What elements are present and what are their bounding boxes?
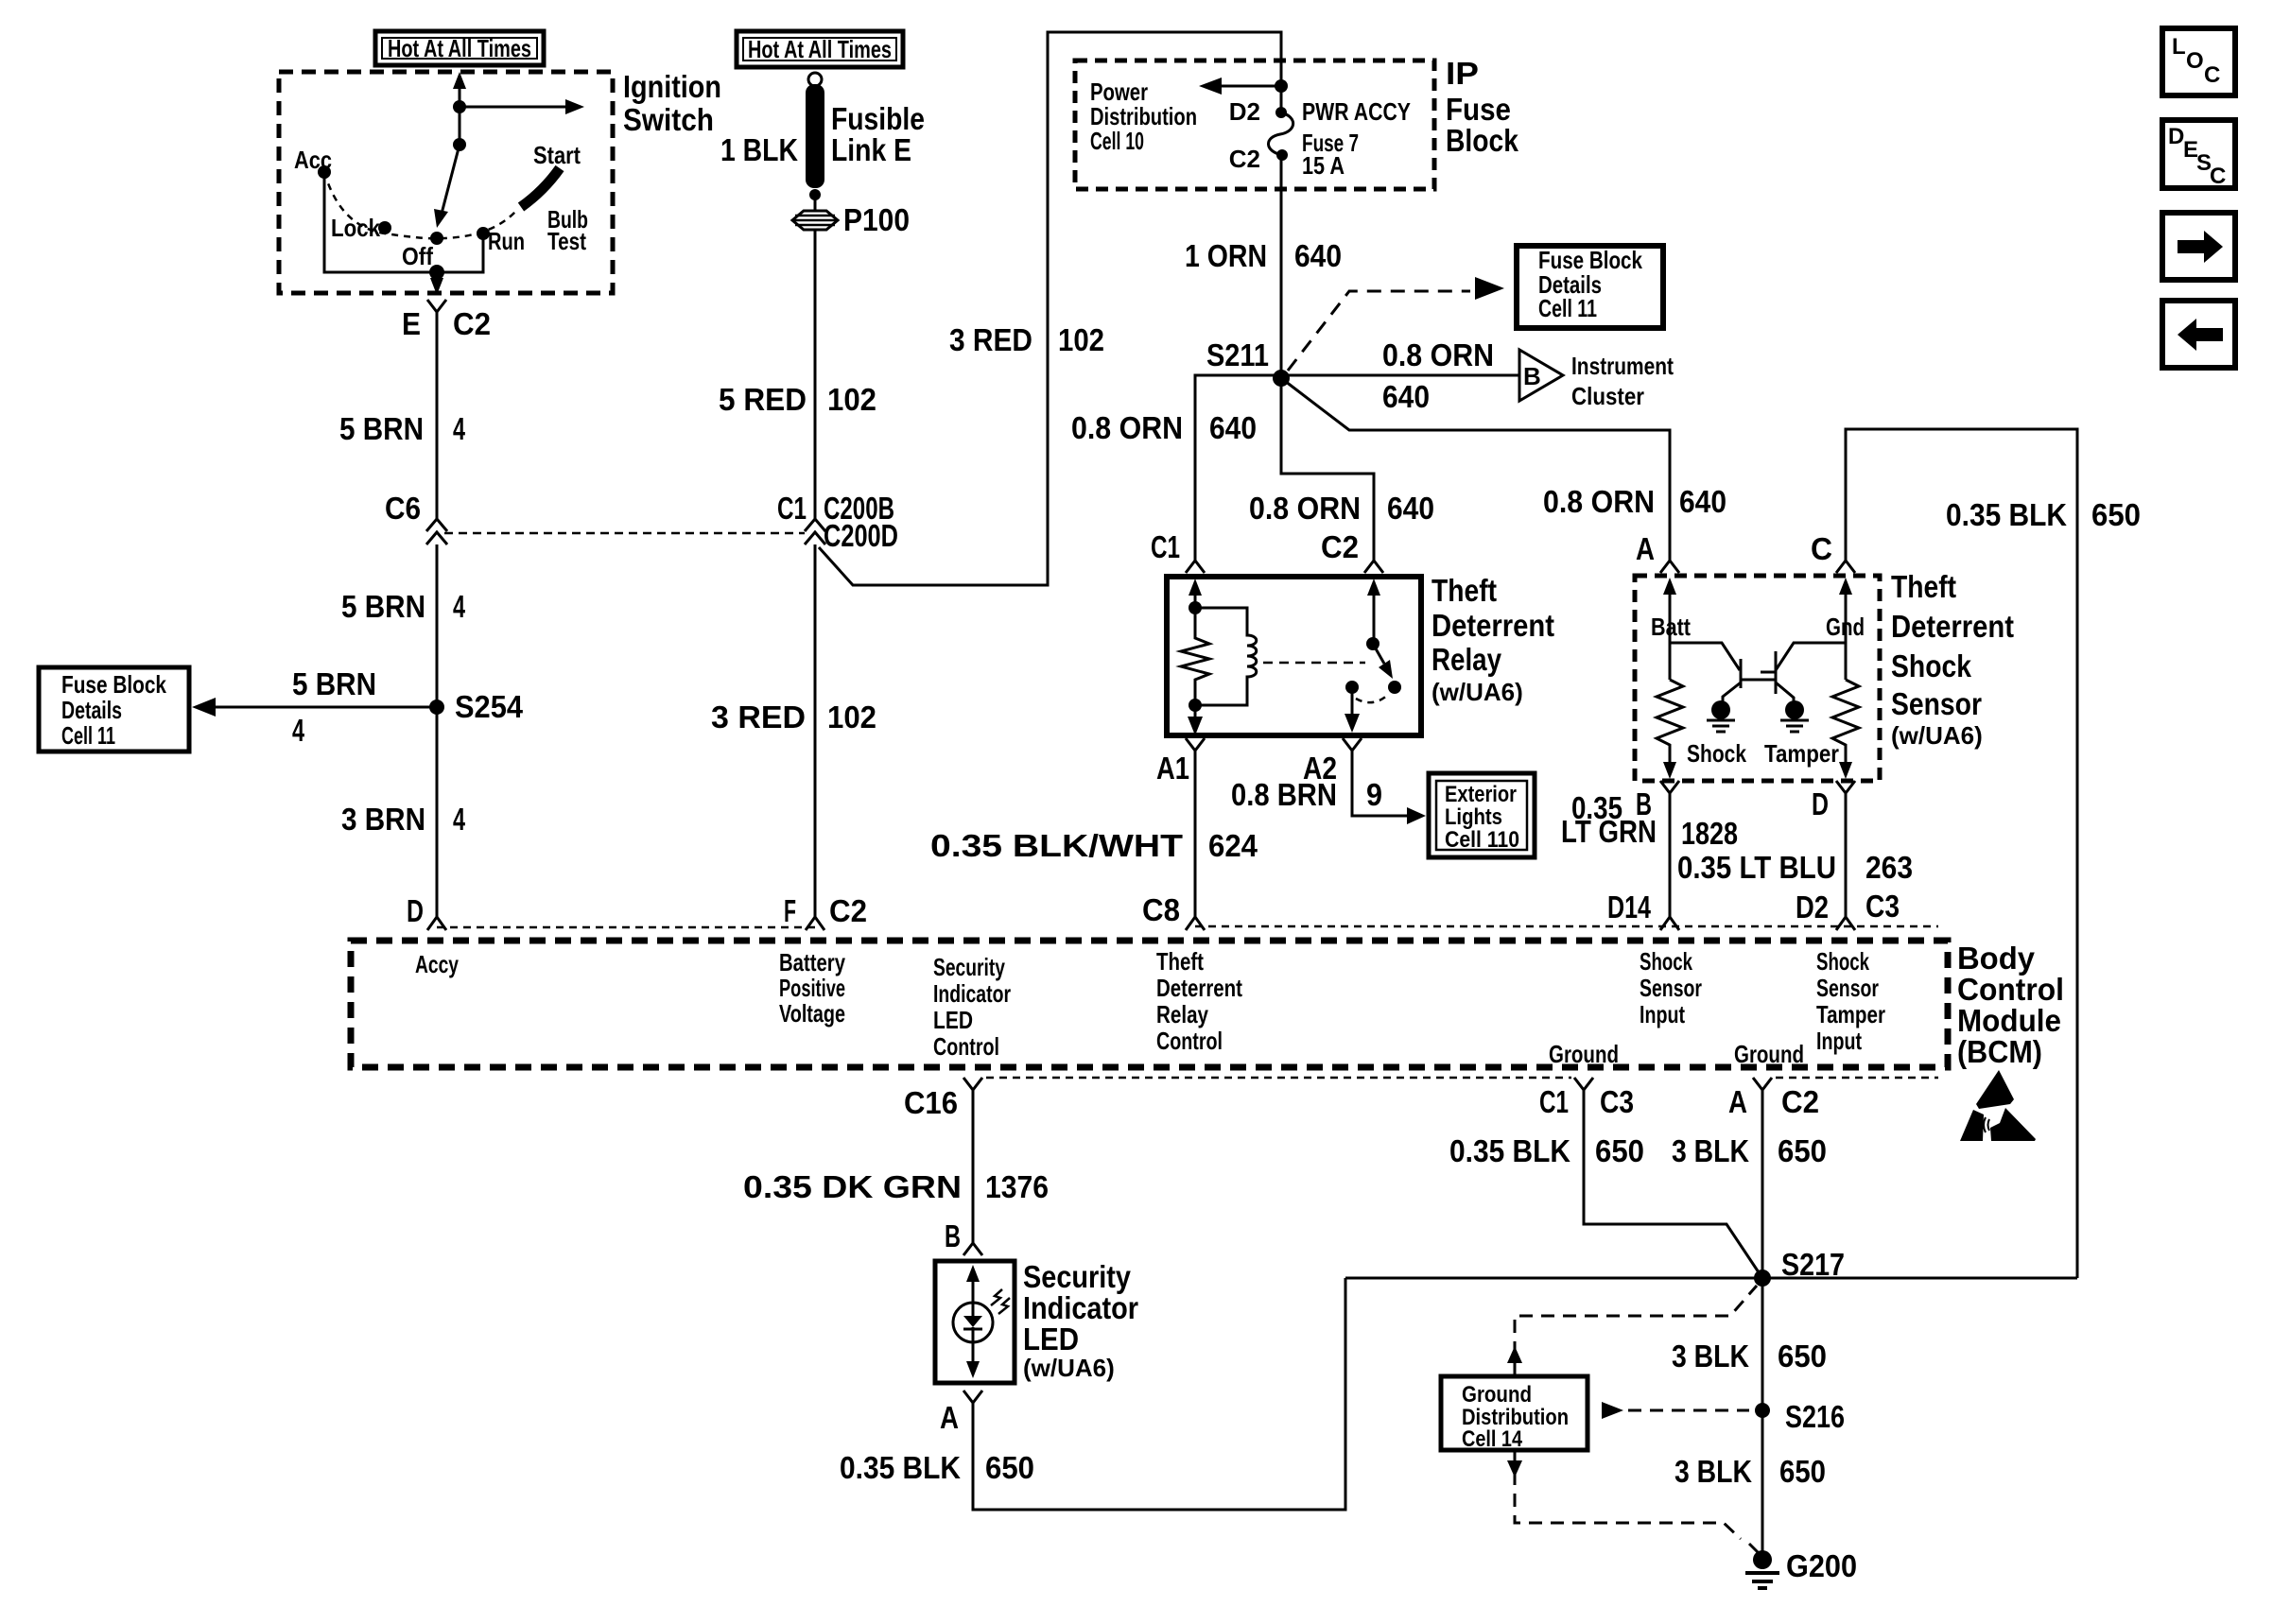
- BCM connector thin dashed line bottom: [986, 1077, 1938, 1080]
- svg-text:3 BRN: 3 BRN: [341, 802, 425, 837]
- relay moving contact: [1388, 681, 1401, 694]
- svg-text:C1: C1: [1539, 1084, 1569, 1119]
- svg-text:A: A: [940, 1400, 959, 1435]
- svg-text:0.35 DK GRN: 0.35 DK GRN: [743, 1169, 962, 1204]
- svg-text:Relay: Relay: [1156, 1000, 1208, 1028]
- svg-text:Start: Start: [533, 141, 581, 169]
- contact Lock: [378, 221, 391, 234]
- connector P100 symbol: [792, 211, 838, 230]
- svg-text:Relay: Relay: [1431, 642, 1502, 677]
- svg-text:640: 640: [1209, 410, 1257, 445]
- instrument cluster triangle: [1519, 350, 1563, 401]
- svg-text:G200: G200: [1786, 1548, 1857, 1583]
- svg-text:4: 4: [292, 713, 304, 748]
- label 3 BRN | 4: [341, 802, 465, 837]
- svg-text:S254: S254: [455, 689, 524, 724]
- relay coil bottom node: [1189, 699, 1202, 712]
- svg-text:(w/UA6): (w/UA6): [1023, 1354, 1115, 1382]
- svg-text:C: C: [2210, 164, 2226, 189]
- svg-text:L: L: [2172, 34, 2186, 60]
- svg-text:F: F: [784, 893, 796, 928]
- svg-text:0.35 BLK: 0.35 BLK: [1946, 497, 2067, 532]
- shock right resistor: [1832, 680, 1859, 762]
- svg-text:C2: C2: [1321, 529, 1359, 564]
- svg-text:Ground: Ground: [1549, 1040, 1619, 1068]
- shock D internal arrow down: [1839, 762, 1852, 779]
- ignition switch internal feed arrow up: [453, 72, 466, 145]
- svg-text:0.8 BRN: 0.8 BRN: [1231, 777, 1337, 812]
- svg-text:1 ORN: 1 ORN: [1185, 238, 1267, 273]
- ground distribution dashed leader to G200: [1507, 1450, 1741, 1539]
- wire 3 RED branch C200 to IP fuse block: [819, 32, 1281, 585]
- svg-text:S216: S216: [1785, 1399, 1845, 1434]
- svg-text:S217: S217: [1781, 1247, 1845, 1282]
- label E | C2: [402, 306, 491, 341]
- svg-text:0.8 ORN: 0.8 ORN: [1543, 484, 1655, 519]
- svg-text:102: 102: [1058, 322, 1104, 357]
- label Security Indicator LED Control: [933, 953, 1011, 1061]
- wire shock D to BCM D2: [1845, 793, 1848, 917]
- label Shock Sensor Tamper Input / Ground: [1734, 947, 1885, 1068]
- svg-text:Fuse: Fuse: [1446, 92, 1511, 127]
- label 0.35 BLK | 650 (C1 ground): [1449, 1133, 1644, 1168]
- svg-text:0.8 ORN: 0.8 ORN: [1071, 410, 1183, 445]
- svg-text:LT GRN: LT GRN: [1561, 814, 1657, 849]
- wire C16 to LED B: [972, 1090, 975, 1243]
- label C1 | C3: [1539, 1084, 1634, 1119]
- BCM connector thin dashed line top left: [437, 926, 815, 929]
- shock sensor pin A chevron: [1660, 561, 1679, 573]
- svg-text:(w/UA6): (w/UA6): [1891, 721, 1983, 750]
- label Power Distribution Cell 10: [1090, 78, 1197, 155]
- svg-text:650: 650: [1779, 1454, 1826, 1489]
- svg-text:D14: D14: [1607, 890, 1651, 924]
- svg-text:Tamper: Tamper: [1816, 1000, 1885, 1028]
- svg-text:Shock: Shock: [1891, 648, 1972, 683]
- ground G200: [1745, 1544, 1779, 1588]
- svg-text:Cell 110: Cell 110: [1445, 827, 1519, 853]
- fuse block details cell 11 box (right): [1517, 246, 1663, 328]
- label Battery Positive Voltage: [779, 948, 845, 1028]
- svg-text:Cell 11: Cell 11: [61, 721, 115, 750]
- label A | C2: [1728, 1084, 1819, 1119]
- svg-text:Theft: Theft: [1431, 573, 1497, 608]
- svg-text:C1: C1: [777, 491, 807, 526]
- svg-text:102: 102: [827, 382, 876, 417]
- svg-text:9: 9: [1366, 777, 1382, 812]
- svg-text:Test: Test: [547, 227, 586, 255]
- svg-text:Ground: Ground: [1462, 1382, 1532, 1408]
- svg-text:(w/UA6): (w/UA6): [1431, 678, 1523, 706]
- svg-text:Deterrent: Deterrent: [1891, 609, 2014, 644]
- prev-arrow icon box: [2162, 301, 2235, 368]
- svg-text:E: E: [402, 306, 421, 341]
- svg-text:Lights: Lights: [1445, 804, 1502, 830]
- svg-text:640: 640: [1294, 238, 1342, 273]
- svg-text:5 RED: 5 RED: [719, 382, 807, 417]
- connector E C2 chevron: [427, 300, 446, 312]
- label C1 | C200B C200D: [777, 491, 898, 553]
- svg-text:Positive: Positive: [779, 974, 845, 1002]
- label Fusible Link E: [831, 101, 925, 167]
- BCM connector thin dashed line top right: [1195, 925, 1938, 928]
- svg-text:Exterior: Exterior: [1445, 782, 1517, 807]
- LOC icon box: [2162, 28, 2235, 95]
- wire S217 to S216: [1761, 1278, 1764, 1410]
- svg-text:4: 4: [453, 589, 465, 624]
- svg-text:Theft: Theft: [1891, 569, 1956, 604]
- svg-text:650: 650: [1778, 1133, 1827, 1168]
- label 5 BRN | 4 (upper): [339, 411, 465, 446]
- ignition contact arc dashed: [324, 172, 515, 238]
- relay actuator dashed line: [1263, 662, 1365, 665]
- svg-text:0.35 LT BLU: 0.35 LT BLU: [1677, 850, 1836, 885]
- label 0.8 ORN | 640 (C1 branch): [1071, 410, 1257, 445]
- wire BCM C1 ground to S217: [1584, 1090, 1762, 1278]
- wire A1 to BCM C8: [1194, 751, 1197, 917]
- relay C2 internal arrow up: [1367, 579, 1380, 598]
- LED symbol: [953, 1303, 993, 1342]
- svg-text:Control: Control: [1957, 972, 2064, 1007]
- LED internal arrow down: [966, 1342, 980, 1378]
- svg-text:B: B: [1523, 362, 1541, 390]
- svg-text:Shock: Shock: [1816, 947, 1869, 976]
- svg-text:Deterrent: Deterrent: [1431, 608, 1554, 643]
- wire P100 to C200: [814, 230, 817, 520]
- theft deterrent relay box: [1167, 577, 1421, 735]
- relay pin A1 chevron: [1186, 738, 1205, 751]
- label 0.35 LT GRN | 1828: [1561, 790, 1738, 851]
- svg-text:IP: IP: [1446, 56, 1479, 91]
- svg-text:Body: Body: [1957, 941, 2036, 976]
- wire fuse to S211: [1280, 155, 1283, 378]
- svg-text:C6: C6: [385, 491, 421, 526]
- svg-text:3 BLK: 3 BLK: [1672, 1339, 1749, 1373]
- label Shock Sensor Input / Ground: [1549, 947, 1702, 1068]
- svg-text:Control: Control: [1156, 1027, 1223, 1055]
- svg-text:5 BRN: 5 BRN: [292, 666, 376, 701]
- svg-text:Fusible: Fusible: [831, 101, 925, 136]
- svg-text:LED: LED: [933, 1006, 973, 1034]
- DESC icon box: [2162, 120, 2235, 189]
- relay coil: [1195, 608, 1257, 705]
- svg-text:A1: A1: [1156, 751, 1189, 786]
- svg-text:C8: C8: [1142, 892, 1180, 927]
- BCM pin C1/C3 chevron: [1574, 1078, 1593, 1090]
- exterior lights cell 110 box: [1429, 773, 1535, 857]
- svg-text:640: 640: [1679, 484, 1726, 519]
- BCM pin A/C2 chevron: [1753, 1078, 1772, 1090]
- svg-text:Acc: Acc: [294, 146, 332, 174]
- svg-text:Details: Details: [61, 696, 122, 724]
- svg-text:C3: C3: [1600, 1084, 1634, 1119]
- BCM pin D chevron: [427, 917, 446, 930]
- label F | C2: [784, 893, 867, 928]
- IP fuse block dashed box: [1075, 60, 1434, 189]
- svg-text:650: 650: [2091, 497, 2141, 532]
- shock right transistor: [1761, 643, 1846, 702]
- theft deterrent shock sensor dashed box: [1635, 576, 1880, 781]
- wire C200 to BCM F: [814, 544, 817, 917]
- svg-text:C1: C1: [1151, 529, 1180, 564]
- svg-text:1 BLK: 1 BLK: [720, 132, 798, 167]
- svg-text:5 BRN: 5 BRN: [341, 589, 425, 624]
- relay C1 internal arrow up: [1189, 579, 1202, 598]
- svg-text:Ground: Ground: [1734, 1040, 1804, 1068]
- dashed leader S211 to fuse block details: [1288, 277, 1504, 371]
- svg-text:D: D: [1812, 786, 1829, 821]
- ignition output wiring: [324, 172, 483, 280]
- svg-text:Accy: Accy: [415, 950, 459, 978]
- label 5 BRN | 4 (middle): [341, 589, 465, 624]
- relay bottom arrow down: [1188, 705, 1203, 735]
- label 0.35 BLK/WHT | 624: [930, 828, 1258, 863]
- contact Run: [477, 227, 490, 240]
- svg-text:3 BLK: 3 BLK: [1672, 1133, 1749, 1168]
- shock left transistor: [1723, 659, 1775, 701]
- relay switch pivot: [1366, 598, 1379, 650]
- svg-text:1828: 1828: [1681, 816, 1738, 851]
- fuse block details cell 11 box (left): [39, 667, 189, 752]
- svg-text:3 RED: 3 RED: [949, 322, 1032, 357]
- label 0.35 BLK | 650 (LED): [840, 1450, 1034, 1485]
- hot-at-all-times box 2: [737, 31, 903, 67]
- svg-text:1376: 1376: [985, 1169, 1049, 1204]
- hot-at-all-times box 1: [375, 31, 544, 65]
- svg-text:Switch: Switch: [623, 102, 714, 137]
- svg-text:A: A: [1728, 1084, 1747, 1119]
- label 0.35 DK GRN | 1376: [743, 1169, 1049, 1204]
- svg-text:Shock: Shock: [1687, 739, 1746, 768]
- wire LED A return to S217: [973, 1278, 1345, 1510]
- S217 horizontal bus: [1345, 1277, 2077, 1280]
- shock batt rail: [1670, 599, 1740, 680]
- wire BCM A ground to S217: [1761, 1090, 1764, 1278]
- svg-text:Sensor: Sensor: [1816, 974, 1879, 1002]
- svg-text:Block: Block: [1446, 123, 1519, 158]
- svg-text:Indicator: Indicator: [933, 979, 1011, 1008]
- ignition switch dashed box: [279, 72, 613, 293]
- label Security Indicator LED (w/UA6): [1023, 1259, 1138, 1382]
- svg-text:Cell 14: Cell 14: [1462, 1426, 1523, 1452]
- svg-text:Security: Security: [933, 953, 1005, 981]
- next-arrow icon box: [2162, 213, 2235, 280]
- BCM pin C16 chevron: [963, 1078, 982, 1090]
- svg-text:Cell 10: Cell 10: [1090, 127, 1144, 155]
- wire S254 to BCM D: [436, 717, 439, 917]
- svg-text:Deterrent: Deterrent: [1156, 974, 1242, 1002]
- svg-text:15 A: 15 A: [1302, 151, 1345, 180]
- svg-text:0.8 ORN: 0.8 ORN: [1249, 491, 1361, 526]
- shock left resistor: [1657, 680, 1683, 762]
- ESD symbol: [1960, 1070, 2036, 1141]
- svg-text:640: 640: [1382, 379, 1430, 414]
- BCM pin D2 chevron: [1836, 917, 1855, 930]
- relay pin C2 chevron: [1364, 561, 1383, 573]
- wire A2 to exterior lights: [1352, 751, 1426, 824]
- connector C200B/C200D double chevron: [805, 519, 825, 544]
- svg-text:Hot At All Times: Hot At All Times: [748, 35, 892, 63]
- svg-text:Module: Module: [1957, 1003, 2061, 1038]
- svg-text:Input: Input: [1640, 1000, 1685, 1028]
- svg-text:Fuse Block: Fuse Block: [61, 670, 166, 699]
- shock pin D chevron: [1836, 781, 1855, 793]
- fuse PWR ACCY element: [1268, 107, 1293, 161]
- LED light rays: [991, 1289, 1010, 1314]
- wire S211 to shock sensor A: [1281, 378, 1670, 561]
- svg-text:C2: C2: [1229, 145, 1260, 173]
- svg-text:Link E: Link E: [831, 132, 911, 167]
- svg-text:D2: D2: [1796, 890, 1829, 924]
- svg-text:D: D: [407, 893, 424, 928]
- wire shock C loop to S217: [1846, 429, 2077, 1278]
- svg-text:Tamper: Tamper: [1764, 739, 1839, 768]
- relay fixed contact: [1345, 681, 1359, 694]
- shock Batt internal arrow up: [1663, 578, 1676, 599]
- label 0.8 ORN | 640 (C2 branch): [1249, 491, 1434, 526]
- svg-text:640: 640: [1387, 491, 1434, 526]
- svg-text:Voltage: Voltage: [779, 999, 845, 1028]
- label Bulb Test: [547, 205, 588, 255]
- svg-text:Theft: Theft: [1156, 947, 1204, 976]
- svg-text:624: 624: [1208, 828, 1258, 863]
- label 1 ORN | 640: [1185, 238, 1342, 273]
- label D2 | C3: [1796, 889, 1900, 924]
- label 3 BLK | 650 (A ground): [1672, 1133, 1827, 1168]
- svg-text:Security: Security: [1023, 1259, 1132, 1294]
- svg-text:Instrument: Instrument: [1571, 352, 1674, 380]
- label Theft Deterrent Shock Sensor (w/UA6): [1891, 569, 2014, 750]
- svg-text:C2: C2: [829, 893, 867, 928]
- svg-text:Battery: Battery: [779, 948, 845, 976]
- relay pin A2 chevron: [1343, 738, 1362, 751]
- svg-text:C: C: [2204, 62, 2220, 88]
- relay switch arm: [1373, 644, 1393, 679]
- svg-text:650: 650: [985, 1450, 1034, 1485]
- shock ground contact right: [1780, 700, 1809, 732]
- svg-text:LED: LED: [1023, 1322, 1079, 1356]
- shock ground contact left: [1707, 700, 1735, 732]
- body control module dashed box: [351, 941, 1948, 1067]
- security indicator LED box: [935, 1261, 1015, 1383]
- svg-text:102: 102: [827, 700, 876, 734]
- label 0.8 BRN | 9: [1231, 777, 1382, 812]
- svg-text:Off: Off: [402, 242, 433, 270]
- label 0.8 ORN | 640 (A branch): [1543, 484, 1726, 519]
- shock sensor pin C chevron: [1836, 561, 1855, 573]
- connector C6 double chevron: [426, 519, 447, 544]
- svg-text:0.35 BLK: 0.35 BLK: [1449, 1133, 1570, 1168]
- label 5 RED | 102: [719, 382, 876, 417]
- label Theft Deterrent Relay Control: [1156, 947, 1242, 1055]
- dashed line C6 to C200: [444, 532, 805, 535]
- label Theft Deterrent Relay (w/UA6): [1431, 573, 1554, 706]
- svg-text:C2: C2: [453, 306, 491, 341]
- label 3 BLK | 650 (S216-G200): [1674, 1454, 1826, 1489]
- contact Off: [430, 232, 443, 245]
- svg-text:0.35 BLK: 0.35 BLK: [840, 1450, 961, 1485]
- svg-text:Shock: Shock: [1640, 947, 1692, 976]
- label IP Fuse Block: [1446, 56, 1519, 158]
- svg-text:Hot At All Times: Hot At All Times: [388, 34, 531, 62]
- svg-text:O: O: [2186, 48, 2204, 74]
- shock B internal arrow down: [1663, 762, 1676, 779]
- ground distribution cell 14 box: [1441, 1376, 1588, 1452]
- svg-text:Lock: Lock: [331, 214, 380, 242]
- power distribution arrow left: [1199, 78, 1288, 95]
- svg-text:650: 650: [1778, 1339, 1827, 1373]
- svg-text:Sensor: Sensor: [1891, 686, 1982, 721]
- wire S254 to fuse block details arrow: [192, 698, 437, 717]
- svg-text:3 RED: 3 RED: [711, 700, 806, 734]
- relay coil branch top node: [1189, 601, 1202, 614]
- contact Acc: [318, 165, 331, 179]
- ignition rotor arrow to Off: [434, 138, 466, 228]
- svg-text:P100: P100: [843, 202, 910, 237]
- relay contact dashed arc: [1356, 695, 1388, 702]
- relay pin C1 chevron: [1186, 561, 1205, 573]
- svg-text:3 BLK: 3 BLK: [1674, 1454, 1752, 1489]
- ignition switch label: [623, 69, 721, 137]
- shock gnd rail: [1845, 599, 1848, 680]
- svg-text:Indicator: Indicator: [1023, 1290, 1138, 1325]
- svg-text:0.8 ORN: 0.8 ORN: [1382, 337, 1494, 372]
- svg-text:B: B: [945, 1218, 961, 1253]
- label 3 RED | 102 (lower): [711, 700, 876, 734]
- wire ignition E to C6: [436, 312, 439, 520]
- svg-text:650: 650: [1595, 1133, 1644, 1168]
- ignition output arrow down: [430, 272, 443, 295]
- label 0.35 LT BLU | 263: [1677, 850, 1913, 885]
- ignition bulb-test thick arc: [521, 168, 560, 207]
- svg-text:263: 263: [1865, 850, 1913, 885]
- svg-text:A: A: [1636, 531, 1655, 566]
- relay output arrow down: [1345, 687, 1360, 733]
- BCM pin C8 chevron: [1186, 917, 1205, 930]
- svg-text:Control: Control: [933, 1032, 999, 1061]
- wire C6 to S254: [436, 544, 439, 717]
- svg-text:5 BRN: 5 BRN: [339, 411, 424, 446]
- BCM pin D14 chevron: [1660, 917, 1679, 930]
- svg-text:Input: Input: [1816, 1027, 1862, 1055]
- label 3 RED | 102 (upper): [949, 322, 1104, 357]
- svg-text:PWR ACCY: PWR ACCY: [1302, 97, 1411, 126]
- label Instrument Cluster: [1571, 352, 1674, 410]
- svg-text:C200D: C200D: [824, 518, 898, 553]
- label PWR ACCY Fuse 7 15 A: [1302, 97, 1411, 180]
- svg-text:D: D: [2168, 124, 2184, 149]
- svg-text:Cluster: Cluster: [1571, 382, 1644, 410]
- wire S211 to relay C2: [1281, 378, 1374, 561]
- node S217: [1754, 1270, 1771, 1287]
- svg-text:C: C: [1811, 531, 1832, 566]
- shock pin B chevron: [1660, 781, 1679, 793]
- label 3 BLK | 650 (S217-S216): [1672, 1339, 1827, 1373]
- svg-text:(BCM): (BCM): [1957, 1034, 2042, 1069]
- label 0.35 BLK | 650 (C loop): [1946, 497, 2141, 532]
- svg-text:0.35 BLK/WHT: 0.35 BLK/WHT: [930, 828, 1183, 863]
- BCM pin F chevron: [806, 917, 824, 930]
- svg-text:D2: D2: [1229, 97, 1260, 126]
- svg-text:C2: C2: [1781, 1084, 1819, 1119]
- ground distribution dashed leader to S217: [1507, 1286, 1757, 1376]
- label 5 BRN / 4 (arrow): [292, 666, 376, 748]
- node S254: [429, 700, 444, 715]
- ignition switch branch arrow right: [453, 99, 584, 114]
- LED internal arrow up: [966, 1265, 980, 1303]
- LED pin B chevron: [963, 1243, 982, 1255]
- LED pin A chevron: [963, 1391, 982, 1403]
